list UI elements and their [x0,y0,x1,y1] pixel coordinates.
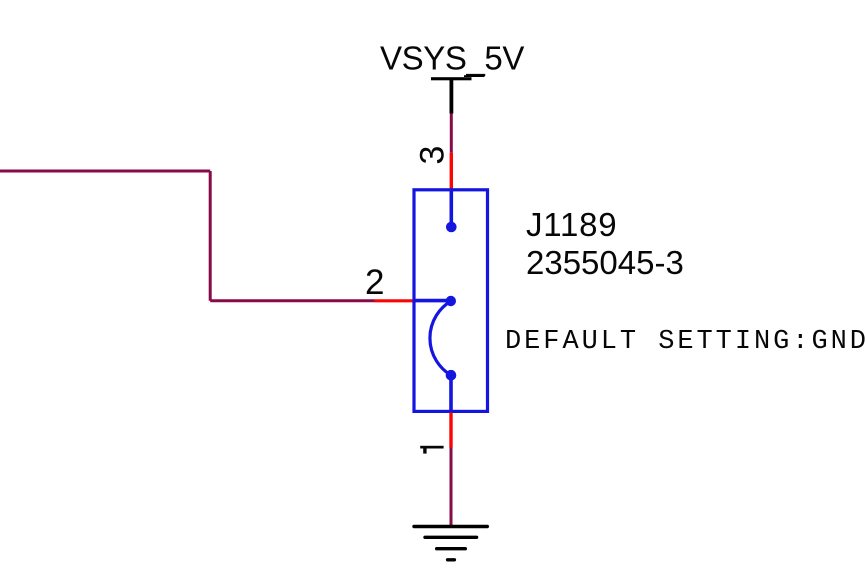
power symbol VSYS_5V bar [431,75,485,80]
power symbol stub [449,80,453,114]
wire net branch lower horizontal (maroon) [210,299,374,302]
svg-text:J1189: J1189 [526,206,617,243]
svg-text:2355045-3: 2355045-3 [526,244,684,281]
ground symbol [414,527,487,560]
svg-text:3: 3 [413,146,451,165]
jumper shorting arc [430,301,451,375]
svg-text:VSYS_5V: VSYS_5V [380,39,524,76]
jumper pin 1 dot [446,370,457,381]
wire to ground (maroon) [450,448,453,528]
wire VSYS_5V vertical (maroon) [450,114,453,153]
jumper pin 3 dot [446,222,457,233]
wire net branch left horizontal (maroon) [0,170,210,173]
wire net branch vertical (maroon) [209,171,212,301]
jumper pin 2 line [413,299,451,303]
jumper pin 1 line [449,375,453,411]
jumper pin 3 line [449,190,453,227]
wire pin3 stub (red) [450,153,453,190]
jumper pin 2 dot [446,296,456,306]
wire pin1 stub (red) [449,413,452,448]
wire to pin2 (red) [375,299,413,302]
svg-text:DEFAULT SETTING:GND: DEFAULT SETTING:GND [505,327,865,357]
jumper J1189 body [414,190,488,412]
svg-text:2: 2 [365,263,384,302]
pin number 1 [420,446,443,454]
